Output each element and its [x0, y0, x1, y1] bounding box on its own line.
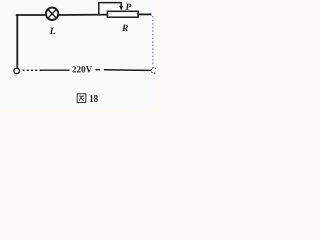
svg-text:220V: 220V: [72, 65, 92, 75]
svg-text:R: R: [121, 23, 129, 34]
svg-text:L: L: [49, 26, 56, 37]
svg-text:18: 18: [89, 93, 98, 105]
svg-text:P: P: [125, 2, 131, 13]
